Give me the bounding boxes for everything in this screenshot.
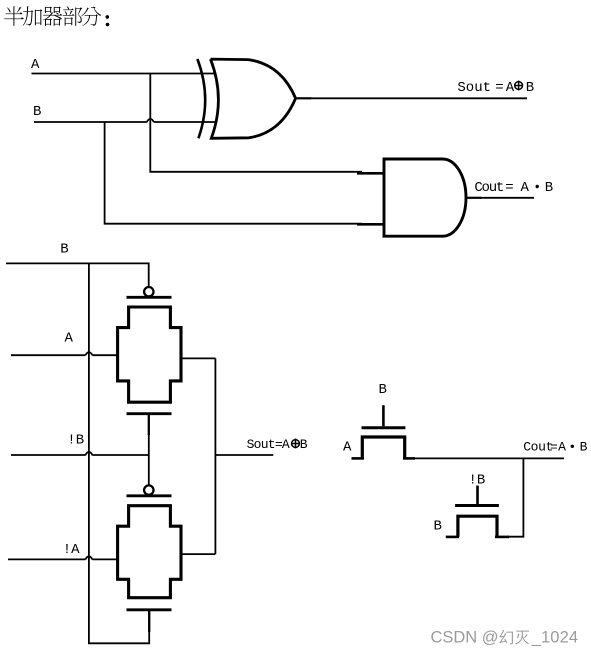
svg-text:B: B [300,437,308,452]
transistor Q1 gate bar [362,426,406,429]
svg-text:Cout: Cout [474,180,503,196]
svg-text:=: = [505,180,513,196]
svg-text:A: A [506,80,515,96]
wire Sout output branch [215,454,273,456]
XOR gate U1 [197,59,295,138]
AND input stubs [357,173,384,224]
svg-text:Cout: Cout [523,440,553,455]
transistor Q2 channel and legs [458,516,497,537]
svg-text:A: A [65,331,74,347]
wire input B to XOR (hop over A branch) [34,119,215,122]
transistor Q1 channel and legs [362,437,404,458]
transistor Q1 gate lead [382,405,385,426]
svg-text:B: B [526,80,534,96]
wire Cout output [414,457,564,459]
svg-text:B: B [60,241,68,257]
svg-text:B: B [545,180,553,196]
wire A input to TG1 (hop over B rail) [11,352,118,355]
svg-text:!B: !B [67,433,84,449]
wire A branch to AND top input [150,74,362,172]
svg-text:Sout=A: Sout=A [247,437,290,452]
transistor Q2 gate lead [476,486,479,505]
svg-text:B: B [33,104,41,120]
wire output rail (Sout) [214,358,216,554]
TG2 body outline [118,506,181,598]
svg-text:B: B [434,519,442,535]
svg-text:=: = [495,80,503,96]
svg-text:B: B [379,382,387,398]
transmission gate TG2 pmos bubble [144,485,153,494]
TG1 nmos gate lead [148,414,150,435]
wire TG2 right to output rail [181,553,215,555]
svg-text:A: A [31,57,40,73]
TG1 nmos gate bar [127,412,172,415]
wire Q2 drain stub [495,536,509,539]
TG2 nmos gate lead [148,610,150,632]
transistor Q2 gate bar [455,504,499,507]
svg-text:A: A [343,440,352,456]
wire input A to XOR [32,73,216,75]
title 半加器部分: [4,6,109,26]
wire B branch to AND bottom input [105,122,362,224]
wire AND output Cout [466,197,481,199]
svg-text:=: = [550,440,558,455]
svg-text:A: A [558,440,566,455]
wire TG1 right to output rail [181,357,215,359]
wire !B input to TG gates (hop over B rail) [11,452,149,455]
wire TG1 gate to TG2 pmos bubble [148,434,150,485]
svg-text:!A: !A [63,542,80,558]
wire XOR output Sout [296,97,311,99]
svg-text:B: B [580,440,588,455]
wire B rail down left side and to TG2 nmos gate [89,263,149,643]
svg-text:_1024: _1024 [531,629,578,647]
TG2 nmos gate bar [127,608,172,611]
transmission gate TG1 pmos bubble [144,287,153,296]
AND gate U2 [384,159,466,236]
wire junction down to Q2 drain [508,458,523,536]
TG1 body outline [118,307,181,402]
svg-text:Sout: Sout [457,80,491,96]
wire Q1 drain stub [403,457,415,460]
wire B input to TG1 pmos gate [6,263,149,286]
TG1 pmos gate bar [127,296,172,299]
wire A stub into Q1 [352,457,365,460]
TG2 pmos gate bar [127,494,172,497]
svg-text:CSDN @: CSDN @ [431,629,499,647]
wire !A input to TG2 (hop over B rail) [8,556,118,559]
svg-text:A: A [521,180,530,196]
wire B stub into Q2 [446,536,459,539]
